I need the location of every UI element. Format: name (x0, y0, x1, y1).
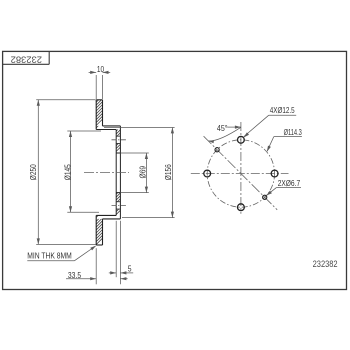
svg-text:232382: 232382 (11, 54, 42, 65)
svg-text:45°: 45° (217, 124, 228, 133)
svg-text:33.5: 33.5 (68, 270, 81, 280)
svg-text:Ø156: Ø156 (164, 164, 174, 180)
svg-text:Ø69: Ø69 (138, 166, 148, 178)
svg-text:5: 5 (128, 264, 132, 274)
svg-text:Ø250: Ø250 (29, 164, 39, 180)
svg-text:2XØ6.7: 2XØ6.7 (278, 178, 300, 188)
svg-text:Ø114.3: Ø114.3 (284, 129, 302, 137)
svg-text:10: 10 (97, 64, 104, 74)
svg-text:4XØ12.5: 4XØ12.5 (270, 107, 295, 116)
svg-text:MIN THK 8MM: MIN THK 8MM (27, 251, 72, 261)
svg-text:Ø145: Ø145 (63, 164, 73, 180)
svg-text:232382: 232382 (313, 258, 338, 269)
